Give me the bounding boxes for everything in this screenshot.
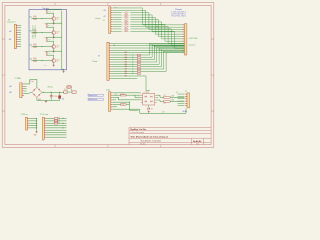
junction C1 top — [51, 92, 52, 93]
wire pullup 1 to bus — [47, 8, 62, 11]
svg-text:D5: D5 — [62, 123, 64, 125]
resistor R39 inline — [137, 64, 140, 65]
svg-text:1K: 1K — [132, 57, 134, 59]
sheet box Top drv — [29, 10, 67, 70]
svg-text:MIN: MIN — [125, 59, 127, 61]
connector J4 — [182, 24, 187, 55]
resistor R24 inline — [125, 17, 127, 18]
svg-text:TIP: TIP — [56, 47, 58, 49]
svg-text:1K: 1K — [132, 66, 134, 68]
page border inner frame — [5, 5, 211, 144]
svg-text:1K: 1K — [132, 71, 134, 73]
svg-text:R10K: R10K — [33, 58, 36, 60]
junction node base 2 — [42, 32, 43, 33]
wire J8 rows — [30, 119, 37, 131]
wire collector 1 up — [53, 13, 55, 17]
label J3 row 11 net text — [125, 68, 131, 70]
resistor R11 inline — [121, 104, 127, 106]
svg-text:TIP: TIP — [56, 33, 58, 35]
transistor Q1 — [52, 17, 56, 21]
resistor R37 inline — [137, 59, 140, 60]
resistor R8 pullup — [46, 52, 47, 55]
label J3 row 5 net text — [125, 55, 131, 57]
resistor R2 base — [34, 32, 37, 33]
svg-text:TIP: TIP — [56, 19, 58, 21]
wire emitter 3 down — [53, 49, 55, 51]
opto-coupler U2 — [141, 93, 157, 105]
label J9 net names text — [62, 118, 64, 129]
svg-text:+12: +12 — [103, 16, 106, 18]
fuse F1 oval — [66, 85, 71, 88]
wire J7 pin1 to bridge top — [24, 79, 37, 87]
svg-text:LED: LED — [171, 100, 174, 102]
svg-text:R 1K: R 1K — [48, 11, 51, 13]
svg-text:1K: 1K — [132, 64, 134, 66]
ground emitter 3 — [53, 50, 55, 52]
junction J8 row 2 — [36, 123, 37, 124]
svg-text:5V: 5V — [176, 92, 178, 94]
svg-text:S-X: S-X — [122, 12, 124, 14]
title block sheet id text — [141, 143, 199, 145]
svg-text:S-X: S-X — [122, 19, 124, 21]
svg-text:LED: LED — [171, 96, 174, 98]
resistor R26 inline — [125, 21, 127, 22]
transistor Q4 — [52, 59, 56, 63]
svg-text:MIN: MIN — [125, 68, 127, 70]
junction J8 row 4 — [36, 127, 37, 128]
wire C1 vertical — [50, 92, 52, 95]
wire regulator link — [67, 91, 72, 93]
resistor R7 pullup — [46, 38, 47, 41]
wire collector 4 up — [53, 55, 55, 59]
wire vertical bus +V rail — [61, 11, 63, 70]
svg-text:5 6 7 8 5 6 7 8 9 0 1: 5 6 7 8 5 6 7 8 9 0 1 — [171, 13, 185, 15]
svg-text:J2: J2 — [103, 20, 105, 22]
svg-text:J6: J6 — [185, 90, 187, 92]
svg-text:1K: 1K — [128, 14, 130, 16]
svg-text:1K: 1K — [132, 59, 134, 61]
svg-text:S-X: S-X — [122, 24, 124, 26]
svg-text:MIN: MIN — [125, 73, 127, 75]
junction C2 top — [59, 92, 60, 93]
resistor R38 inline — [137, 61, 140, 62]
svg-text:S-X: S-X — [122, 21, 124, 23]
svg-text:MIN: MIN — [125, 57, 127, 59]
svg-text:1K: 1K — [128, 31, 130, 33]
label J3 row 7 net text — [125, 59, 131, 61]
wire collector 3 to resistor — [47, 40, 54, 42]
svg-text:Q2 T: Q2 T — [56, 31, 59, 33]
resistor R313 inline — [137, 73, 140, 74]
junction J8 row 3 — [36, 125, 37, 126]
border zone tick marks — [2, 3, 214, 148]
wire pullup 2 to bus — [47, 22, 62, 25]
svg-text:R? 1K: R? 1K — [121, 104, 125, 106]
svg-text:S.1: S.1 — [197, 143, 199, 145]
resistor R10 inline — [121, 94, 127, 96]
svg-text:1K: 1K — [128, 17, 130, 19]
connector J5 — [109, 92, 113, 112]
svg-text:MIN: MIN — [125, 75, 127, 77]
resistor R23 inline — [125, 14, 127, 15]
svg-text:R 1K: R 1K — [48, 25, 51, 27]
svg-text:P4: P4 — [8, 20, 10, 22]
resistor R27 inline — [125, 24, 127, 25]
svg-text:1K: 1K — [58, 117, 60, 119]
svg-text:1K: 1K — [52, 25, 54, 27]
svg-text:IN4: IN4 — [30, 58, 32, 60]
resistor R312 inline — [137, 71, 140, 72]
wire J7 pin5 to bridge left — [24, 92, 32, 93]
svg-text:Q3 T: Q3 T — [56, 45, 59, 47]
capacitor C2 — [59, 96, 61, 99]
connector J6 — [185, 93, 190, 108]
page border outer frame — [2, 3, 214, 148]
wire bundle J3 to J4 staircase — [150, 44, 185, 71]
svg-text:Q1 T: Q1 T — [56, 17, 59, 19]
label J3 row 10 net text — [125, 66, 131, 68]
svg-text:S-X: S-X — [122, 17, 124, 19]
resistor R29 inline — [125, 28, 127, 29]
resistor R22 inline — [125, 12, 127, 13]
transistor Q3 — [52, 45, 56, 49]
wire base input 2 — [31, 32, 51, 34]
wire +raw rail — [42, 91, 64, 93]
svg-text:R?: R? — [164, 95, 166, 97]
svg-text:+5V: +5V — [9, 31, 12, 33]
svg-text:P? PWR: P? PWR — [15, 78, 22, 80]
svg-text:C? 47u: C? 47u — [53, 96, 58, 98]
connector J2 — [109, 7, 113, 34]
svg-text:U? PC8: U? PC8 — [144, 92, 149, 94]
ground emitter 1 — [53, 22, 55, 24]
svg-text:Ba Ba Bd: Ba Ba Bd — [193, 141, 201, 143]
svg-text:MIN: MIN — [125, 71, 127, 73]
wire U2 bottom to diode — [148, 105, 150, 107]
regulator output component — [72, 91, 76, 93]
resistor R36 inline — [137, 57, 140, 58]
wire bridge bottom to ground rail — [36, 97, 38, 100]
resistor R35 inline — [137, 54, 140, 55]
svg-text:1K: 1K — [128, 26, 130, 28]
svg-text:1K: 1K — [132, 73, 134, 75]
bridge rectifier D1-D4 — [32, 87, 42, 97]
svg-text:1K: 1K — [58, 119, 60, 121]
wire J7 stub pins — [24, 86, 27, 91]
resistor R28 inline — [125, 26, 127, 27]
junction J8 row 0 — [36, 118, 37, 119]
capacitor C1 — [50, 96, 53, 97]
resistor R311 inline — [137, 68, 140, 69]
svg-text:D?: D? — [151, 108, 153, 110]
svg-text:Size: A4 Date: 17 sep 2011: Size: A4 Date: 17 sep 2011 — [141, 140, 161, 143]
svg-text:MIN: MIN — [125, 64, 127, 66]
resistor R13 inline — [164, 101, 171, 103]
junction risers — [149, 44, 166, 54]
svg-text:R 1K: R 1K — [48, 39, 51, 41]
wire base input 1 — [31, 18, 51, 20]
label J3 row 9 net text — [125, 64, 131, 66]
svg-text:Id: 1/1: Id: 1/1 — [141, 143, 145, 145]
wire collector 2 up — [53, 27, 55, 31]
svg-text:IN1: IN1 — [30, 16, 32, 18]
junction J5 row4 — [129, 102, 130, 103]
svg-text:1K: 1K — [52, 53, 54, 55]
svg-text:RepRap 1 to 5hc: RepRap 1 to 5hc — [130, 128, 147, 131]
svg-text:0 1 2 3 4 5 6 7 8 9 0: 0 1 2 3 4 5 6 7 8 9 0 — [34, 26, 36, 39]
resistor R3 base — [34, 46, 37, 47]
wire emitter 2 down — [53, 35, 55, 37]
wire bus to ground — [62, 69, 64, 71]
wire J3 rows — [111, 43, 184, 90]
svg-text:S-X: S-X — [122, 26, 124, 28]
wire J5 rows — [113, 93, 141, 113]
title block frame — [129, 127, 211, 144]
svg-text:C: Users Docs reprap: C: Users Docs reprap — [130, 132, 144, 134]
svg-text:1K: 1K — [132, 61, 134, 63]
wire bottom rail +5V — [140, 109, 186, 114]
resistor R92 inline — [54, 122, 58, 124]
resistor R210 inline — [125, 31, 127, 32]
wire C2 vertical — [59, 92, 61, 95]
connector J3 — [107, 42, 111, 80]
svg-text:GND: GND — [44, 65, 47, 67]
label J3 row 8 net text — [125, 61, 131, 63]
junction J8 row 1 — [36, 120, 37, 121]
wire collector 2 to resistor — [47, 26, 54, 28]
wire base input 3 — [31, 46, 51, 48]
wire J2 rows — [113, 8, 175, 31]
svg-text:S-X: S-X — [122, 31, 124, 33]
wire collector 1 to resistor — [47, 12, 54, 14]
svg-text:J3 ends: J3 ends — [92, 61, 98, 63]
label J3 row 6 net text — [125, 57, 131, 59]
svg-text:O-O2? STEP: O-O2? STEP — [189, 38, 198, 40]
resistor R25 inline — [125, 19, 127, 20]
svg-text:GND: GND — [34, 135, 37, 137]
global label Breakout 1 — [88, 94, 103, 97]
transistor Q2 — [52, 31, 56, 35]
svg-text:GN: GN — [9, 39, 11, 41]
svg-text:1K: 1K — [128, 19, 130, 21]
connector J1 — [14, 24, 18, 48]
svg-text:S-X: S-X — [122, 14, 124, 16]
svg-text:1K: 1K — [52, 11, 54, 13]
junction node base 4 — [42, 60, 43, 61]
svg-text:+5V: +5V — [62, 99, 65, 101]
svg-text:1K: 1K — [132, 55, 134, 57]
junction node base 1 — [42, 18, 43, 19]
svg-text:R10K: R10K — [33, 16, 36, 18]
resistor R4 base — [34, 60, 37, 61]
resistor R310 inline — [137, 66, 140, 67]
svg-text:R10K: R10K — [33, 44, 36, 46]
svg-text:MIN: MIN — [125, 55, 127, 57]
svg-text:1K: 1K — [132, 68, 134, 70]
svg-text:S-X: S-X — [122, 28, 124, 30]
wire base input 4 — [31, 60, 51, 62]
junction node base 3 — [42, 46, 43, 47]
svg-text:R 1K: R 1K — [48, 53, 51, 55]
svg-text:GND: GND — [42, 140, 45, 142]
label J3 row 13 net text — [125, 73, 131, 75]
svg-text:IN3: IN3 — [30, 44, 32, 46]
wire J1 pin stubs — [18, 25, 21, 46]
label J3 row 4 net text — [125, 52, 131, 54]
wire collector 4 to resistor — [47, 54, 54, 56]
wire emitter 1 down — [53, 21, 55, 23]
svg-text:1K: 1K — [128, 12, 130, 14]
ground emitter 2 — [53, 36, 55, 38]
resistor R1 base — [34, 18, 37, 19]
svg-text:+5V: +5V — [103, 10, 106, 12]
wire J9 rows — [47, 119, 67, 138]
wire bundle J2 to J4 staircase — [143, 8, 185, 48]
svg-text:Q4 T: Q4 T — [56, 59, 59, 61]
label J3 row 14 net text — [125, 75, 131, 77]
ground opto — [148, 111, 150, 113]
wire C1 to ground rail — [50, 97, 52, 101]
svg-text:TIP: TIP — [56, 61, 58, 63]
svg-text:D? x4: D? x4 — [30, 81, 34, 83]
connector J9 — [42, 117, 46, 139]
ground rail wire — [37, 100, 60, 102]
wire pullup 3 to bus — [47, 36, 62, 39]
ground power section — [45, 100, 47, 102]
ground emitter 4 — [53, 64, 55, 66]
svg-text:MIN: MIN — [125, 52, 127, 54]
svg-text:5V: 5V — [98, 56, 100, 58]
svg-text:R?: R? — [164, 103, 166, 105]
svg-text:+5V: +5V — [162, 112, 165, 114]
svg-text:+5V brk: +5V brk — [182, 111, 187, 113]
svg-text:1K: 1K — [128, 21, 130, 23]
svg-text:1K: 1K — [128, 24, 130, 26]
resistor R90 inline — [54, 118, 58, 120]
resistor R5 pullup — [46, 10, 47, 13]
svg-text:GND: GND — [38, 99, 41, 101]
connector J7 — [20, 83, 24, 98]
junction J5 row2 — [118, 97, 119, 98]
ground bus bottom — [63, 71, 65, 73]
svg-text:1K: 1K — [128, 28, 130, 30]
connector J8 — [25, 117, 29, 130]
wire collector 3 up — [53, 41, 55, 45]
svg-text:1 2 3 4 1 2 3 4 5 6 7: 1 2 3 4 1 2 3 4 5 6 7 — [171, 11, 185, 13]
regulator input component — [64, 91, 67, 93]
svg-text:J? ISP con: J? ISP con — [21, 114, 28, 116]
resistor R6 pullup — [46, 24, 47, 27]
svg-text:Title: (Power) And Led turbo w: Title: (Power) And Led turbo wiring x2 — [130, 135, 168, 138]
svg-text:MIN: MIN — [125, 61, 127, 63]
svg-text:x4 conn: x4 conn — [95, 18, 100, 20]
wire emitter 4 down — [53, 63, 55, 65]
junction bridge out — [43, 92, 44, 93]
wire regulator stubs — [67, 88, 71, 91]
label J3 row 12 net text — [125, 71, 131, 73]
wire C2 to ground rail — [59, 98, 61, 100]
wire U2 out rows — [157, 95, 185, 101]
svg-text:0 1 2 3 4 5 6 7 8 9 0: 0 1 2 3 4 5 6 7 8 9 0 — [31, 26, 33, 39]
svg-text:EN: EN — [115, 6, 117, 8]
global label Breakout 2 — [88, 98, 103, 101]
diode D5 — [148, 108, 150, 110]
svg-text:D6: D6 — [62, 128, 64, 130]
junction staircase corner — [156, 26, 157, 27]
resistor R91 inline — [54, 120, 58, 122]
ground J8 — [36, 131, 38, 133]
svg-text:9 0 1 2 9 0 1 2 3 4 5: 9 0 1 2 9 0 1 2 3 4 5 — [171, 16, 185, 18]
svg-text:1K: 1K — [58, 122, 60, 124]
wire pullup 4 to bus — [47, 50, 62, 53]
resistor R12 inline — [164, 96, 171, 98]
wire J6 left stubs — [178, 94, 185, 106]
svg-text:J? LCD conn: J? LCD conn — [40, 114, 49, 116]
svg-text:MIN: MIN — [125, 66, 127, 68]
svg-text:1K: 1K — [52, 39, 54, 41]
svg-text:D4: D4 — [62, 118, 64, 120]
